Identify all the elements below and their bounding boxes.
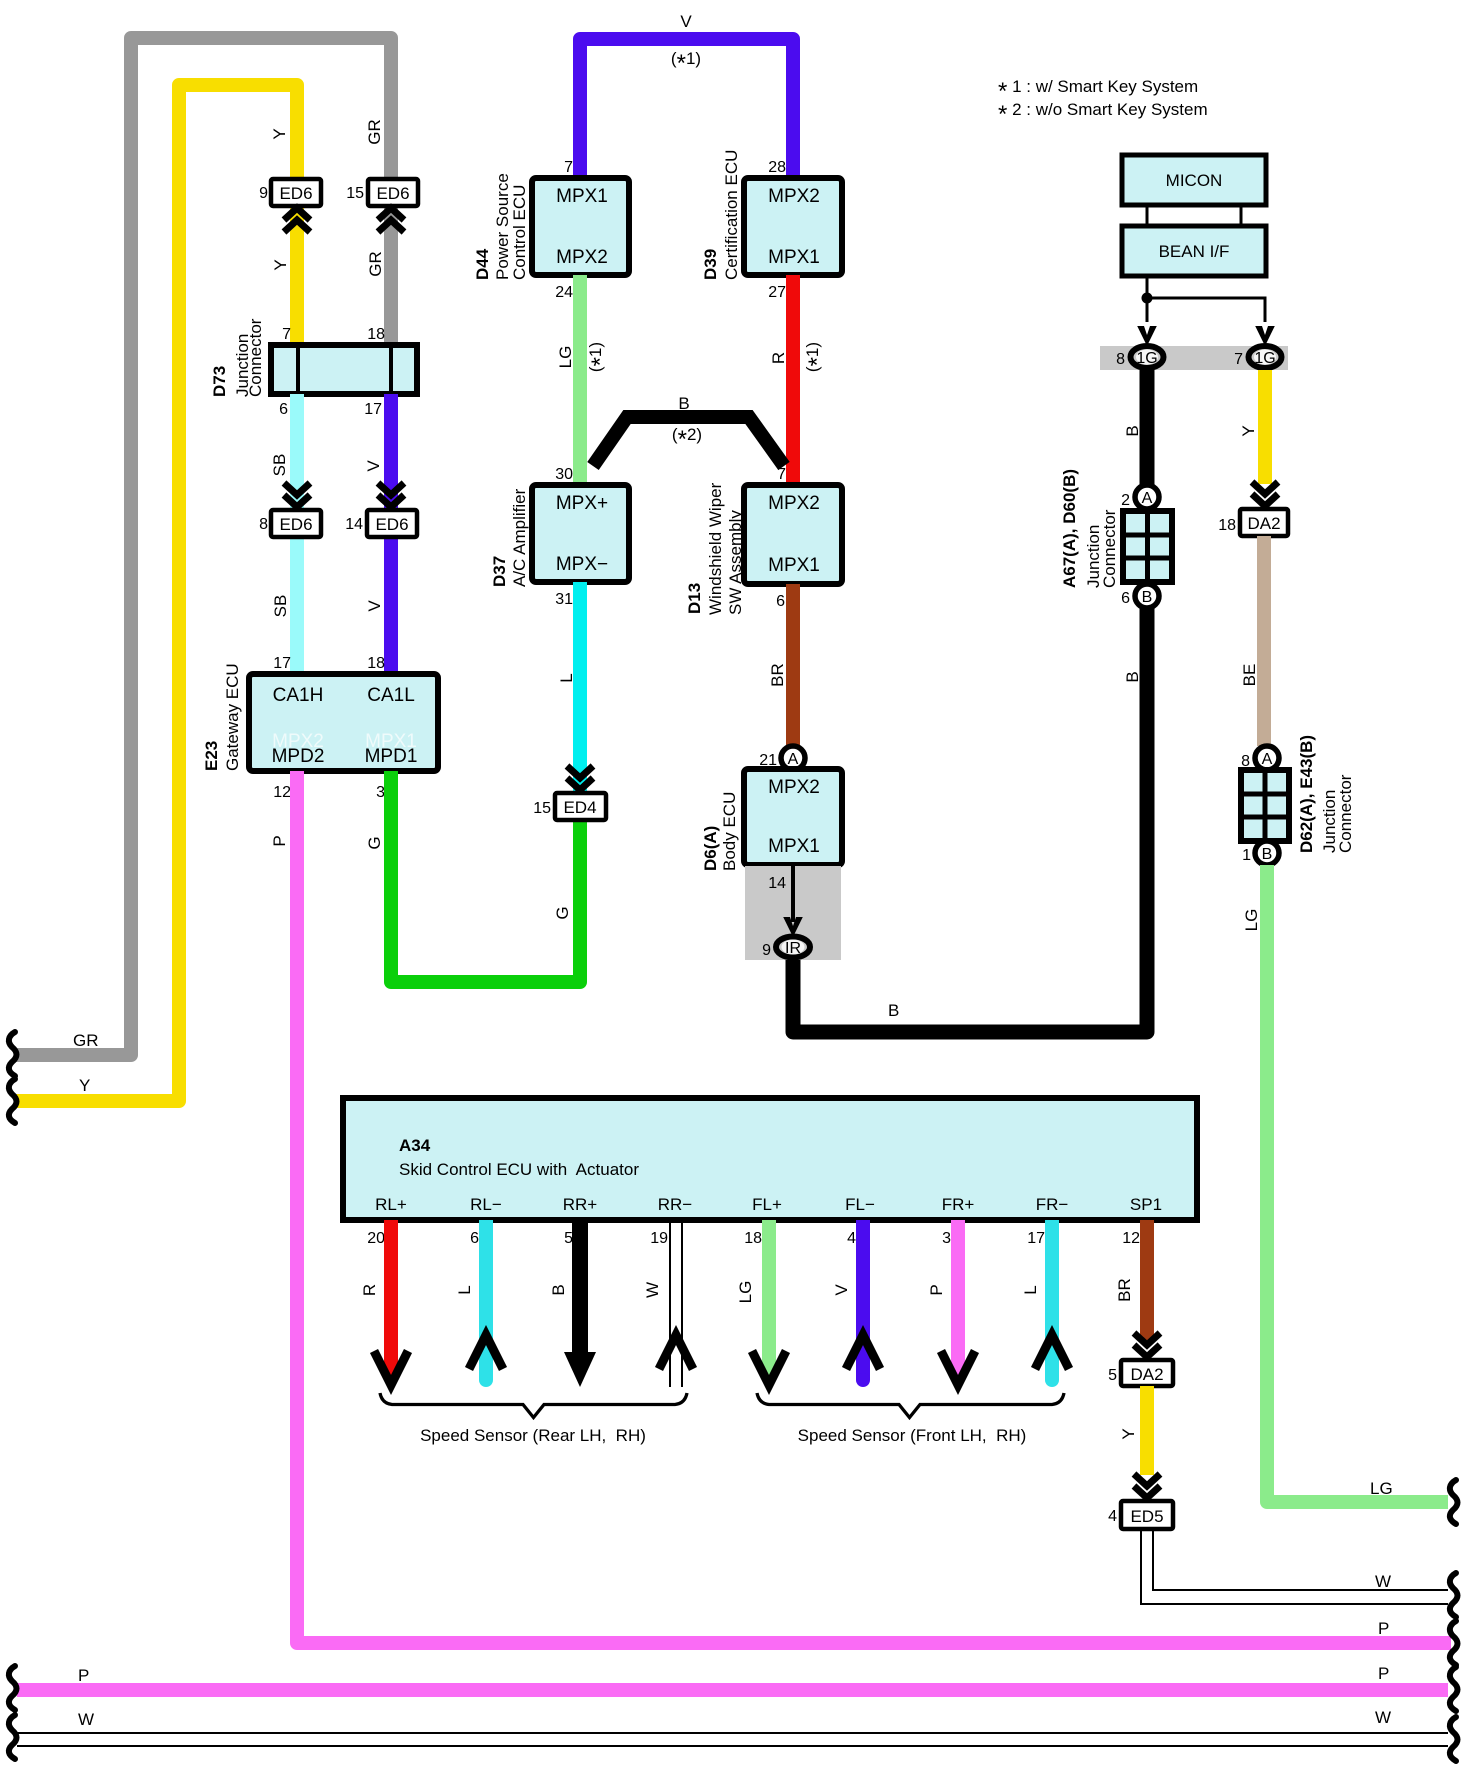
svg-text:D13: D13	[685, 583, 704, 614]
svg-text:G: G	[365, 836, 384, 849]
svg-text:5: 5	[1108, 1367, 1117, 1384]
svg-text:D73: D73	[210, 366, 229, 397]
svg-text:B: B	[1262, 846, 1273, 863]
wire Y	[16, 85, 297, 1101]
svg-text:Y: Y	[1239, 425, 1258, 436]
ECU A34	[343, 1098, 1197, 1220]
svg-text:1G: 1G	[1136, 350, 1157, 367]
svg-text:D37: D37	[490, 556, 509, 587]
svg-text:R: R	[769, 352, 788, 364]
svg-text:6: 6	[279, 401, 288, 418]
svg-text:1G: 1G	[1254, 350, 1275, 367]
arrow into ED6 15	[378, 208, 404, 232]
chevron FL+	[752, 1351, 786, 1385]
svg-text:Y: Y	[271, 259, 290, 270]
svg-text:P: P	[1378, 1619, 1389, 1638]
svg-text:GR: GR	[366, 251, 385, 277]
connector circle A (A67)	[1121, 485, 1159, 509]
svg-text:28: 28	[768, 159, 786, 176]
svg-text:W: W	[78, 1710, 94, 1729]
ECU D44	[532, 159, 629, 301]
brace rear sensors	[380, 1393, 687, 1418]
svg-text:Certification ECU: Certification ECU	[722, 150, 741, 280]
svg-text:Control ECU: Control ECU	[510, 185, 529, 280]
svg-text:LG: LG	[736, 1281, 755, 1304]
svg-text:7: 7	[777, 466, 786, 483]
thin wire D6 pin14 to IR	[791, 865, 795, 922]
svg-text:9: 9	[762, 942, 771, 959]
connector IR	[762, 937, 810, 960]
squiggle W right 2	[1450, 1717, 1458, 1761]
svg-text:MPX2: MPX2	[768, 493, 820, 514]
svg-text:4: 4	[847, 1230, 856, 1247]
svg-text:Windshield Wiper: Windshield Wiper	[706, 482, 725, 615]
wire BE	[1257, 536, 1271, 746]
connector 1G pin 8	[1116, 346, 1163, 368]
svg-text:18: 18	[367, 655, 385, 672]
wire V FL-	[856, 1220, 870, 1380]
svg-text:(*2): (*2)	[672, 425, 702, 453]
svg-text:MPX2: MPX2	[768, 777, 820, 798]
arrow into 1G 7	[1255, 326, 1275, 346]
wire B right	[1140, 370, 1155, 486]
wire W from ED5	[1141, 1529, 1448, 1604]
arrow into ED6 9	[284, 208, 310, 232]
svg-text:9: 9	[259, 185, 268, 202]
svg-text:6: 6	[776, 593, 785, 610]
chevron RL+	[374, 1351, 408, 1385]
svg-text:4: 4	[1108, 1508, 1117, 1525]
svg-text:D6(A): D6(A)	[701, 826, 720, 871]
svg-text:MPX1: MPX1	[768, 836, 820, 857]
svg-text:FR+: FR+	[942, 1195, 975, 1214]
wire LG FL+	[762, 1220, 776, 1378]
svg-text:P: P	[270, 835, 289, 846]
svg-text:ED6: ED6	[376, 184, 409, 203]
svg-text:7: 7	[1234, 351, 1243, 368]
svg-text:15: 15	[533, 800, 551, 817]
svg-text:MPD1: MPD1	[365, 746, 418, 767]
svg-text:7: 7	[282, 326, 291, 343]
svg-text:Y: Y	[79, 1076, 90, 1095]
svg-text:V: V	[680, 12, 692, 31]
box MICON	[1122, 155, 1266, 205]
svg-text:Connector: Connector	[1100, 509, 1119, 588]
svg-text:Body ECU: Body ECU	[720, 792, 739, 871]
squiggle P left	[9, 1666, 17, 1710]
svg-text:20: 20	[367, 1230, 385, 1247]
svg-text:Skid Control ECU with Actuato: Skid Control ECU with Actuator	[399, 1160, 639, 1179]
shield gray box under D6	[745, 866, 841, 960]
wire SB	[290, 394, 304, 674]
chevron FL-	[846, 1335, 880, 1369]
svg-text:3: 3	[942, 1230, 951, 1247]
svg-text:27: 27	[768, 284, 786, 301]
wire R	[786, 275, 800, 485]
svg-text:5: 5	[564, 1230, 573, 1247]
svg-text:P: P	[1378, 1664, 1389, 1683]
box BEAN I/F	[1122, 226, 1266, 276]
ECU D13	[744, 466, 842, 610]
svg-text:Speed Sensor (Front LH, RH): Speed Sensor (Front LH, RH)	[798, 1426, 1027, 1445]
svg-text:E23: E23	[202, 741, 221, 771]
wire L	[573, 582, 587, 793]
svg-text:A/C Amplifier: A/C Amplifier	[510, 488, 529, 587]
svg-text:1: 1	[1242, 847, 1251, 864]
connector ED6 pin 15	[346, 179, 418, 206]
wire P	[297, 771, 1451, 1643]
svg-text:P: P	[78, 1666, 89, 1685]
svg-text:Connector: Connector	[1336, 774, 1355, 853]
arrow into ED6 8	[284, 483, 310, 507]
arrow into DA2 5	[1134, 1333, 1160, 1357]
svg-text:18: 18	[1218, 517, 1236, 534]
squiggle W right	[1450, 1573, 1458, 1617]
svg-text:MPX2: MPX2	[768, 186, 820, 207]
wire P FR+	[951, 1220, 965, 1378]
squiggle Y	[9, 1079, 17, 1123]
wire V	[384, 394, 398, 674]
svg-text:DA2: DA2	[1130, 1365, 1163, 1384]
wire V top	[580, 39, 793, 178]
svg-text:24: 24	[555, 284, 573, 301]
svg-text:30: 30	[555, 466, 573, 483]
svg-text:FL+: FL+	[752, 1195, 782, 1214]
svg-text:(*1): (*1)	[803, 342, 831, 372]
svg-text:ED6: ED6	[279, 515, 312, 534]
svg-text:SP1: SP1	[1130, 1195, 1162, 1214]
svg-text:A: A	[1142, 490, 1153, 507]
svg-text:FL−: FL−	[845, 1195, 875, 1214]
svg-text:W: W	[1375, 1708, 1391, 1727]
svg-text:D44: D44	[473, 248, 492, 280]
arrow into IR	[783, 917, 803, 937]
svg-text:L: L	[1021, 1285, 1040, 1294]
svg-text:ED6: ED6	[279, 184, 312, 203]
connector DA2 pin 5	[1108, 1360, 1173, 1386]
svg-text:LG: LG	[1370, 1479, 1393, 1498]
svg-text:A34: A34	[399, 1136, 431, 1155]
svg-text:R: R	[360, 1284, 379, 1296]
svg-text:Y: Y	[270, 128, 289, 139]
gray band	[1100, 346, 1288, 370]
chevron FR+	[941, 1351, 975, 1385]
svg-text:D62(A), E43(B): D62(A), E43(B)	[1297, 735, 1316, 853]
svg-text:A67(A), D60(B): A67(A), D60(B)	[1060, 469, 1079, 588]
svg-text:LG: LG	[556, 346, 575, 369]
wire LG right	[1267, 865, 1448, 1502]
junction connector D73	[271, 326, 417, 418]
wire P2 bottom	[17, 1683, 1448, 1697]
svg-text:8: 8	[259, 516, 268, 533]
arrow into ED6 14	[378, 483, 404, 507]
links MICON-BEAN	[1147, 205, 1241, 226]
chevron FR-	[1035, 1335, 1069, 1369]
svg-text:G: G	[553, 906, 572, 919]
svg-text:B: B	[1142, 589, 1153, 606]
svg-text:DA2: DA2	[1247, 514, 1280, 533]
svg-text:12: 12	[273, 784, 291, 801]
svg-text:3: 3	[376, 784, 385, 801]
svg-text:LG: LG	[1242, 909, 1261, 932]
svg-text:15: 15	[346, 185, 364, 202]
svg-text:P: P	[927, 1284, 946, 1295]
svg-text:Speed Sensor (Rear LH, RH): Speed Sensor (Rear LH, RH)	[420, 1426, 646, 1445]
connector DA2 pin 18	[1218, 509, 1288, 536]
svg-text:7: 7	[564, 159, 573, 176]
wire B (*2)	[593, 417, 784, 466]
svg-text:MPX1: MPX1	[768, 247, 820, 268]
svg-text:ED4: ED4	[563, 798, 596, 817]
chevron RL-	[469, 1335, 503, 1369]
connector circle A (D6)	[759, 746, 805, 770]
svg-text:14: 14	[768, 875, 786, 892]
squiggle W left	[9, 1715, 17, 1759]
wire B RR+	[572, 1220, 588, 1355]
svg-text:CA1L: CA1L	[367, 685, 415, 706]
svg-text:BR: BR	[768, 663, 787, 687]
svg-text:RL+: RL+	[375, 1195, 407, 1214]
svg-text:BE: BE	[1240, 664, 1259, 687]
wire BR SP1	[1140, 1220, 1154, 1340]
wire R RL+	[384, 1220, 398, 1378]
ECU E23 Gateway	[249, 655, 438, 801]
squiggle GR	[9, 1032, 17, 1076]
svg-text:SB: SB	[271, 595, 290, 618]
svg-text:18: 18	[367, 326, 385, 343]
svg-text:18: 18	[744, 1230, 762, 1247]
svg-text:Gateway ECU: Gateway ECU	[223, 663, 242, 771]
svg-text:B: B	[1123, 425, 1142, 436]
connector circle B (A67)	[1121, 584, 1159, 608]
svg-text:6: 6	[470, 1230, 479, 1247]
connector 1G pin 7	[1234, 346, 1281, 368]
connector ED6 pin 9	[259, 179, 321, 206]
svg-text:L: L	[557, 673, 576, 682]
arrow into ED4	[567, 766, 593, 790]
svg-text:D39: D39	[701, 249, 720, 280]
connector ED6 pin 8	[259, 510, 321, 537]
connector ED4 pin 15	[533, 793, 606, 820]
wire LG	[573, 275, 587, 485]
svg-text:(*1): (*1)	[586, 342, 614, 372]
ECU D37	[532, 466, 629, 608]
squiggle LG right	[1450, 1480, 1458, 1524]
svg-text:A: A	[1262, 751, 1273, 768]
connector circle A (D62)	[1241, 746, 1279, 770]
svg-text:L: L	[455, 1285, 474, 1294]
svg-text:MPX−: MPX−	[556, 554, 608, 575]
svg-text:Connector: Connector	[246, 318, 265, 397]
svg-text:SB: SB	[270, 454, 289, 477]
connector ED6 pin 14	[345, 510, 417, 537]
svg-text:GR: GR	[365, 119, 384, 145]
svg-text:MPX+: MPX+	[556, 493, 608, 514]
svg-text:MPX1: MPX1	[768, 555, 820, 576]
junction dot	[1142, 293, 1153, 304]
svg-text:B: B	[678, 394, 689, 413]
arrow into ED5	[1134, 1474, 1160, 1498]
svg-text:BEAN I/F: BEAN I/F	[1159, 242, 1230, 261]
chevron RR-	[659, 1335, 693, 1369]
svg-text:17: 17	[364, 401, 382, 418]
svg-text:IR: IR	[785, 940, 801, 957]
squiggle P right 2	[1450, 1667, 1458, 1711]
svg-text:19: 19	[650, 1230, 668, 1247]
svg-text:FR−: FR−	[1036, 1195, 1069, 1214]
svg-text:V: V	[365, 600, 384, 612]
svg-text:B: B	[1123, 671, 1142, 682]
svg-text:8: 8	[1116, 351, 1125, 368]
svg-text:V: V	[364, 460, 383, 472]
ECU D6(A) Body	[744, 769, 842, 865]
svg-text:MPD2: MPD2	[272, 746, 325, 767]
wire BR	[786, 584, 800, 747]
squiggle P right 1	[1450, 1621, 1458, 1665]
junction connector D62(A) E43(B)	[1241, 770, 1289, 841]
wire W2 bottom	[17, 1733, 1448, 1746]
svg-text:31: 31	[555, 591, 573, 608]
arrow into DA2 18	[1252, 482, 1278, 506]
svg-text:* 2 : w/o Smart Key System: * 2 : w/o Smart Key System	[998, 100, 1208, 128]
wire GR	[16, 38, 391, 1055]
connector circle B (D62)	[1242, 841, 1279, 865]
svg-text:17: 17	[273, 655, 291, 672]
svg-text:RL−: RL−	[470, 1195, 502, 1214]
svg-text:2: 2	[1121, 492, 1130, 509]
svg-text:RR−: RR−	[658, 1195, 693, 1214]
svg-text:V: V	[832, 1284, 851, 1296]
svg-text:B: B	[549, 1284, 568, 1295]
wire G	[391, 771, 580, 982]
svg-text:14: 14	[345, 516, 363, 533]
svg-text:SW Assembly: SW Assembly	[726, 510, 745, 615]
ECU D39	[744, 159, 842, 301]
svg-text:W: W	[643, 1282, 662, 1298]
arrow into 1G 8	[1137, 326, 1157, 346]
brace front sensors	[757, 1393, 1064, 1418]
svg-text:Y: Y	[1119, 1428, 1138, 1439]
wire B from IR to A67 B	[793, 608, 1147, 1032]
connector ED5 pin 4	[1108, 1501, 1173, 1529]
svg-text:BR: BR	[1115, 1278, 1134, 1302]
svg-text:MPX1: MPX1	[556, 186, 608, 207]
svg-text:ED5: ED5	[1130, 1507, 1163, 1526]
svg-text:ED6: ED6	[375, 515, 408, 534]
wire L FR-	[1045, 1220, 1059, 1380]
svg-text:B: B	[888, 1001, 899, 1020]
svg-text:GR: GR	[73, 1031, 99, 1050]
svg-text:17: 17	[1027, 1230, 1045, 1247]
wire Y right	[1258, 370, 1272, 484]
svg-text:A: A	[788, 751, 799, 768]
svg-text:MPX2: MPX2	[556, 247, 608, 268]
svg-text:RR+: RR+	[563, 1195, 598, 1214]
svg-text:CA1H: CA1H	[273, 685, 324, 706]
svg-text:12: 12	[1122, 1230, 1140, 1247]
junction connector A67(A) D60(B)	[1123, 511, 1172, 582]
svg-text:MICON: MICON	[1166, 171, 1223, 190]
arrow RR+	[564, 1352, 596, 1387]
svg-text:W: W	[1375, 1572, 1391, 1591]
svg-text:(*1): (*1)	[671, 49, 701, 77]
wire L RL-	[479, 1220, 493, 1380]
svg-text:6: 6	[1121, 590, 1130, 607]
stem from BEAN	[1147, 276, 1265, 322]
wire Y SP1	[1140, 1386, 1154, 1475]
wire W RR-	[670, 1220, 682, 1387]
